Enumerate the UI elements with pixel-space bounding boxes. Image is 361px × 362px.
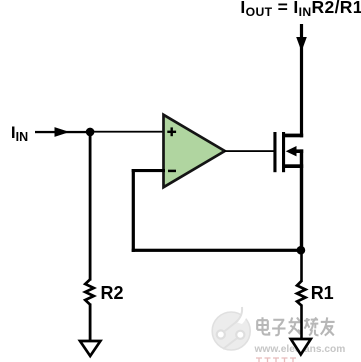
svg-text:R1: R1 (311, 283, 334, 303)
watermark logo (212, 306, 250, 350)
wire R1 to ground (300, 305, 303, 341)
minus sign (168, 170, 176, 173)
wire R1 upper (300, 250, 303, 282)
op-amp U1 (164, 115, 225, 187)
watermark red text bottom (256, 358, 296, 362)
resistor R2 (85, 280, 94, 305)
watermark text shao (305, 317, 319, 335)
transistor M1 drain stub (283, 134, 303, 138)
ground left (80, 341, 100, 356)
ground right (291, 339, 311, 355)
watermark text fa (289, 318, 302, 335)
transistor M1 source stub (283, 164, 303, 168)
watermark text zi (272, 320, 285, 335)
node output junction (297, 246, 306, 255)
svg-text:R2: R2 (101, 283, 124, 303)
watermark text you (321, 317, 335, 335)
current arrow right (55, 127, 70, 137)
wire input (35, 131, 90, 133)
transistor M1 body arrow (286, 146, 297, 156)
wire feedback bottom (132, 249, 303, 252)
current arrow down (296, 37, 307, 52)
wire drain vertical (300, 24, 303, 137)
svg-text:IOUT = IINR2/R1: IOUT = IINR2/R1 (240, 0, 361, 19)
wire node down to R2 (89, 132, 92, 281)
transistor M1 channel bar (282, 132, 285, 172)
wire node to op-amp plus input (90, 131, 164, 133)
wire feedback to minus input (132, 169, 165, 172)
svg-text:IIN: IIN (11, 123, 28, 144)
wire op-amp output to gate (224, 150, 274, 152)
wire feedback vertical (132, 169, 135, 252)
resistor R1 (297, 281, 306, 306)
transistor M1 gate bar (273, 132, 276, 172)
wire source down to output node (300, 149, 303, 251)
watermark text dian (257, 317, 269, 334)
node input junction (86, 128, 95, 137)
wire R2 to ground (89, 304, 92, 342)
plus sign (167, 127, 176, 136)
